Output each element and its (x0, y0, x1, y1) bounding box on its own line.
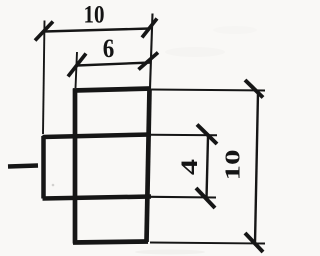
dimension line 6 (77, 63, 151, 66)
extension line bottom of dim 10 right (150, 243, 265, 244)
tick right of dim 6 (139, 53, 159, 70)
svg-text:10: 10 (84, 2, 105, 29)
dimension line 10 top (44, 29, 150, 32)
extension line left of dim 6 (76, 52, 78, 88)
svg-text:10: 10 (221, 150, 245, 181)
svg-text:6: 6 (103, 34, 115, 63)
dimension line 10 right (255, 92, 258, 243)
svg-text:4: 4 (177, 158, 202, 175)
body rectangle (tall component outline) (73, 89, 151, 244)
tick bottom of dim 10 right (245, 233, 263, 252)
extension line top of dim 10 right (151, 90, 265, 91)
lead wire (8, 166, 38, 167)
tick left of dim 6 (68, 54, 86, 77)
tick top of dim 4 (197, 125, 217, 145)
tick right of dim 10 top (142, 19, 157, 38)
flange rectangle (wide section outline) (43, 135, 152, 199)
faint scan smudges (52, 26, 257, 255)
extension line bottom of dim 4 (151, 196, 216, 199)
dimension line 4 (207, 137, 209, 199)
tick left of dim 10 top (35, 22, 53, 41)
extension line top of dim 4 (151, 134, 217, 137)
tick top of dim 10 right (245, 80, 263, 98)
extension line right shared (dim 10 top / dim 6) (150, 14, 153, 89)
extension line left of dim 10 top (43, 21, 45, 135)
tick bottom of dim 4 (196, 188, 215, 208)
